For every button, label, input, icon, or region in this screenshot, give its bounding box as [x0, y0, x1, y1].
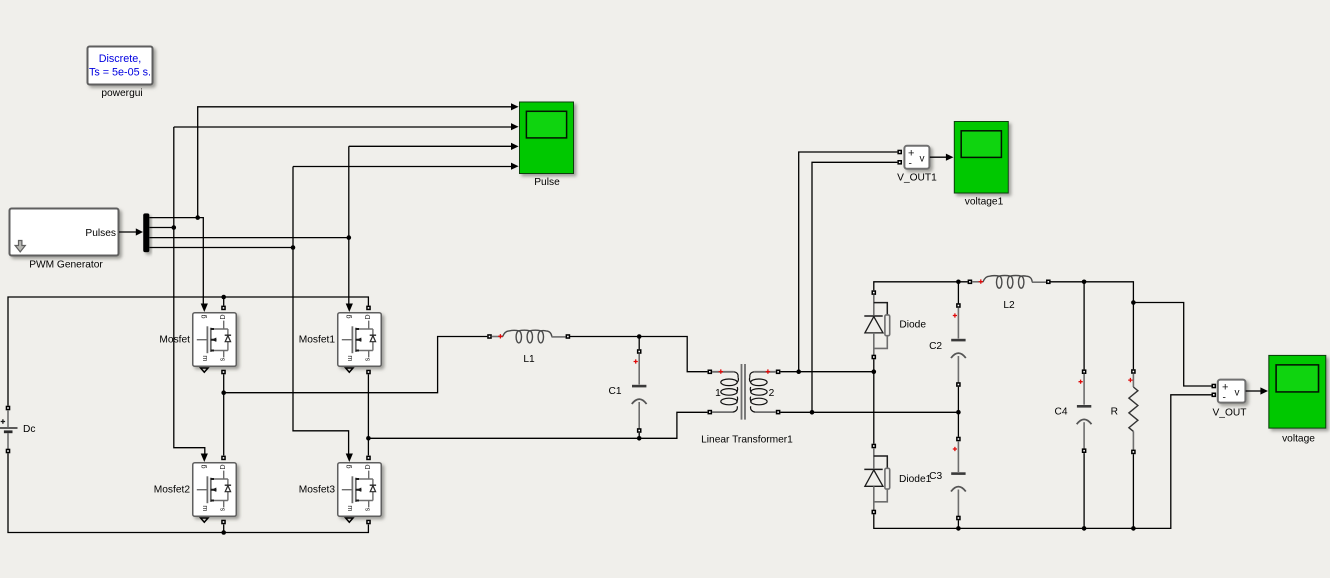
wire demux out3 [149, 237, 348, 239]
junction C2 top [956, 280, 961, 285]
wire midpoint to C3 top [957, 412, 959, 437]
svg-text:Mosfet3: Mosfet3 [299, 485, 336, 496]
wire to V_OUT1 plus input [799, 152, 898, 372]
mosfet Mosfet1 [338, 304, 382, 375]
junction V_OUT plus tap [1131, 300, 1136, 305]
wire demux out1 to Mosfet gate [149, 218, 203, 304]
wire demux2 riser to Mosfet2 gate [174, 127, 205, 454]
svg-text:Diode1: Diode1 [899, 474, 932, 485]
junction C1 top [637, 334, 642, 339]
capacitor C4 [1077, 369, 1092, 453]
junction demux4 branch [291, 245, 296, 250]
wire demux3 riser to Mosfet1 gate [348, 146, 350, 303]
junction left bridge midpoint node [221, 390, 226, 395]
mosfet Mosfet [193, 304, 237, 375]
wire C4 top drop [1083, 282, 1085, 370]
junction R bottom bus [1131, 526, 1136, 531]
junction V_OUT1 plus tap [796, 369, 801, 374]
wire R bottom to bottom bus [1132, 454, 1134, 528]
PWM Generator block [10, 209, 119, 256]
resistor R [1128, 369, 1138, 454]
wire demux4 riser to Mosfet3 gate [293, 167, 349, 454]
junction C4 bottom bus [1082, 526, 1087, 531]
wire Mosfet1 source to Mosfet3 drain [367, 374, 369, 455]
inductor L1 [487, 330, 570, 343]
svg-text:Ts = 5e-05 s.: Ts = 5e-05 s. [89, 67, 151, 79]
mosfet Mosfet3 [338, 454, 382, 525]
svg-text:-: - [909, 159, 912, 170]
diode Diode [864, 290, 889, 359]
svg-text:Dc: Dc [23, 424, 35, 435]
junction secondary top to diode chain [872, 369, 877, 374]
svg-text:v: v [920, 154, 925, 165]
svg-text:Diode: Diode [899, 320, 926, 331]
svg-text:Linear Transformer1: Linear Transformer1 [701, 435, 793, 446]
wire winding 2 bottom to capacitor midpoint [780, 411, 958, 413]
svg-text:voltage: voltage [1282, 434, 1315, 445]
scope Pulse [520, 102, 574, 174]
wire C2 top drop [957, 282, 959, 304]
svg-text:Pulses: Pulses [85, 228, 116, 239]
svg-text:Mosfet: Mosfet [159, 335, 190, 346]
wire winding 2 top to diode node [780, 371, 873, 373]
wire C3 bottom to bottom bus [957, 520, 959, 528]
junction demux2 branch [172, 225, 177, 230]
wire C1 top drop [638, 337, 640, 350]
wire C4 bottom to bottom bus [1083, 453, 1085, 528]
winding 2 coil [749, 372, 767, 412]
wire V_OUT1 to voltage1 scope [930, 154, 954, 161]
wire Mosfet source to Mosfet2 drain [223, 374, 225, 455]
svg-text:L1: L1 [523, 354, 535, 365]
winding 1 coil [721, 372, 739, 412]
svg-text:voltage1: voltage1 [965, 197, 1004, 208]
svg-text:V_OUT: V_OUT [1213, 408, 1247, 419]
wire Diode chain node between diodes [873, 359, 875, 443]
transformer core [742, 364, 746, 420]
demux [143, 213, 149, 252]
voltage measurement V_OUT [1212, 380, 1246, 404]
junction demux1 branch [195, 215, 200, 220]
svg-text:v: v [1235, 387, 1240, 398]
wire L2 to R top [1050, 282, 1133, 369]
svg-text:C2: C2 [929, 341, 942, 352]
wire PWM Generator to demux [119, 228, 143, 235]
scope voltage [1269, 355, 1326, 428]
wire to V_OUT1 minus input [812, 162, 897, 412]
svg-text:1: 1 [715, 388, 721, 399]
wire Dc minus to bottom bus [8, 453, 368, 532]
voltage measurement V_OUT1 [897, 146, 929, 170]
capacitor C2 [951, 303, 966, 387]
svg-text:L2: L2 [1003, 300, 1015, 311]
wire Dc plus to top bus [8, 297, 368, 406]
diode Diode1 [864, 444, 889, 515]
junction demux3 branch [347, 235, 352, 240]
transformer Linear Transformer1 [708, 364, 781, 420]
wire left midpoint to L1 [224, 337, 488, 393]
wire L1 to transformer winding 1 top [570, 337, 707, 372]
wire top bus drop to Mosfet drain [223, 297, 225, 306]
wire Diode1 anode to bottom bus to V_OUT minus [874, 395, 1212, 529]
capacitor C3 [951, 437, 966, 521]
dc source Dc [0, 406, 18, 454]
wire demux out4 [149, 247, 293, 249]
svg-text:Discrete,: Discrete, [99, 53, 142, 65]
junction C1 bottom [637, 436, 642, 441]
junction capacitor midpoint node [956, 410, 961, 415]
svg-text:2: 2 [769, 388, 775, 399]
svg-text:Mosfet1: Mosfet1 [299, 335, 336, 346]
mosfet Mosfet2 [193, 454, 237, 525]
wire V_OUT plus tap to V_OUT [1133, 303, 1211, 387]
svg-text:PWM Generator: PWM Generator [29, 260, 103, 271]
junction C4 top [1082, 280, 1087, 285]
svg-text:Mosfet2: Mosfet2 [154, 485, 191, 496]
wire demux out2 [149, 227, 173, 229]
powergui block [88, 47, 153, 85]
svg-text:C1: C1 [608, 386, 621, 397]
svg-text:-: - [1223, 392, 1226, 403]
wire C2 bottom to midpoint [957, 387, 959, 412]
wire branch to Pulse scope input 2 [174, 123, 519, 130]
svg-text:C4: C4 [1054, 406, 1067, 417]
wire V_OUT to voltage scope [1246, 387, 1268, 394]
svg-text:C3: C3 [929, 471, 942, 482]
wire branch to Pulse scope input 1 [198, 103, 519, 217]
junction bottom bus Mosfet2 source [221, 530, 226, 535]
svg-text:powergui: powergui [101, 88, 142, 99]
wire Mosfet2 source drop [223, 525, 225, 533]
junction C3 bottom bus [956, 526, 961, 531]
junction V_OUT1 minus tap [810, 410, 815, 415]
svg-text:R: R [1111, 406, 1118, 417]
svg-text:V_OUT1: V_OUT1 [897, 173, 937, 184]
junction right bridge midpoint node [366, 436, 371, 441]
scope voltage1 [954, 122, 1008, 194]
svg-text:Pulse: Pulse [534, 177, 560, 188]
wire right midpoint to transformer winding 1 bottom [368, 412, 707, 438]
wire Diode cathode to top bus and L2 [874, 282, 968, 291]
wire C1 bottom drop [638, 433, 640, 438]
inductor L2 [968, 276, 1051, 289]
junction top bus Mosfet drain [221, 295, 226, 300]
wire branch to Pulse scope input 4 [293, 163, 519, 170]
wire branch to Pulse scope input 3 [349, 143, 519, 150]
capacitor C1 [632, 349, 647, 433]
